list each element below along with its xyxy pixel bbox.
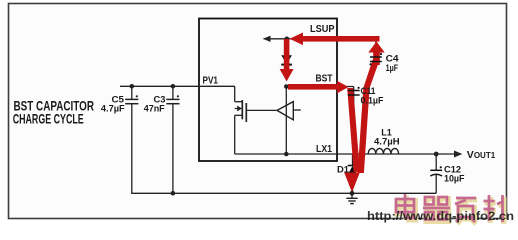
svg-text:VOUT1: VOUT1: [467, 149, 496, 161]
label C11 value: [361, 86, 384, 107]
svg-text:1µF: 1µF: [386, 63, 399, 74]
label C3 value: [144, 94, 166, 114]
wire C4 branch: [375, 39, 377, 68]
red current arrow down to BST: [280, 39, 294, 82]
diode D1: [348, 154, 358, 193]
transistor Q1: [235, 86, 277, 154]
svg-text:http://www.dq-pinfo2.cn: http://www.dq-pinfo2.cn: [367, 211, 514, 223]
svg-text:LSUP: LSUP: [310, 24, 335, 35]
node C3-ground junction: [171, 191, 176, 196]
capacitor C5: [125, 86, 138, 193]
wire BST-LX1 vertical: [285, 87, 287, 155]
node LSUP junction: [285, 37, 290, 42]
capacitor C4 plates: [370, 53, 383, 66]
node LX1-driver junction: [284, 152, 289, 157]
svg-text:4.7µF: 4.7µF: [101, 104, 125, 115]
wire VOUT with arrow: [436, 151, 462, 158]
capacitor C11 plates: [348, 87, 360, 95]
label C4 value: [386, 54, 400, 75]
node PV1-C3 junction: [171, 84, 176, 89]
wire BST: [286, 86, 353, 88]
label L1 value: [374, 128, 400, 148]
node VOUT junction: [434, 152, 439, 157]
title text: [13, 97, 94, 126]
capacitor C12: [430, 154, 442, 193]
wire PV1 rail: [120, 85, 235, 87]
label C12 value: [444, 164, 465, 184]
svg-text:D1: D1: [337, 165, 350, 176]
red current diagonal from C4 to ground: [358, 59, 380, 173]
svg-text:PV1: PV1: [203, 75, 219, 86]
red current arrow LSUP right-to-left: [290, 33, 380, 46]
red arrowhead into ground: [344, 173, 360, 193]
diode D2 internal bootstrap: [281, 55, 292, 64]
node ground junction: [350, 191, 355, 196]
svg-text:0.1µF: 0.1µF: [361, 96, 384, 107]
IC box U1: [199, 19, 337, 162]
watermark chinese characters: [396, 194, 504, 224]
node PV1-C5 junction: [130, 84, 135, 89]
op-amp gate driver U1A: [277, 102, 301, 120]
svg-text:47nF: 47nF: [144, 103, 165, 114]
svg-text:BST: BST: [316, 74, 333, 85]
node BST vertical junction: [284, 84, 289, 89]
ground: [346, 193, 357, 203]
svg-text:CHARGE CYCLE: CHARGE CYCLE: [13, 110, 84, 126]
label C5 value: [101, 94, 125, 114]
red current line through C11 to ground: [347, 88, 360, 172]
wire LSUP: [264, 38, 376, 40]
red current arrow BST to C11: [288, 81, 349, 94]
svg-text:4.7µH: 4.7µH: [374, 137, 400, 148]
red current arrow up through C4: [368, 42, 384, 66]
wire LX1: [235, 153, 437, 155]
wire C11 branch: [353, 87, 355, 155]
black arrow to gate supply: [263, 36, 271, 42]
inductor L1: [368, 148, 398, 154]
wire ground rail: [131, 192, 436, 194]
svg-text:LX1: LX1: [316, 144, 332, 155]
capacitor C3: [166, 86, 179, 193]
svg-text:10µF: 10µF: [444, 174, 465, 185]
